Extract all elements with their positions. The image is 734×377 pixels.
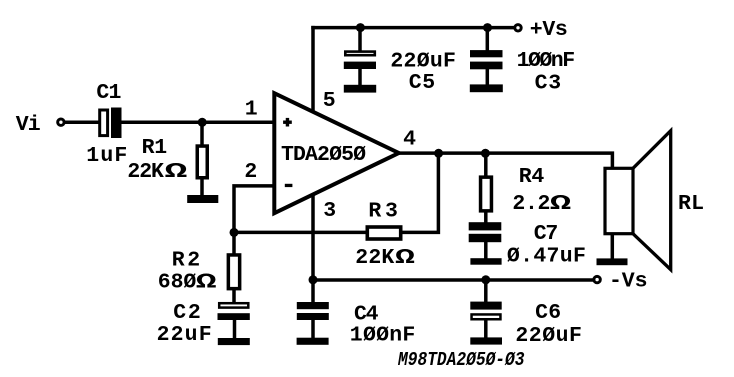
svg-text:Ω: Ω	[550, 191, 572, 216]
svg-text:4: 4	[403, 128, 416, 152]
svg-text:Ω: Ω	[395, 246, 415, 270]
svg-text:1ØØnF: 1ØØnF	[350, 324, 416, 348]
svg-text:C2: C2	[173, 301, 201, 325]
svg-text:5: 5	[323, 89, 336, 113]
svg-text:3: 3	[323, 199, 336, 223]
svg-text:22ØuF: 22ØuF	[515, 324, 582, 348]
svg-text:C1: C1	[96, 81, 121, 105]
svg-text:-Vs: -Vs	[609, 270, 648, 294]
svg-text:22K: 22K	[355, 246, 394, 270]
svg-text:1: 1	[245, 98, 258, 122]
svg-text:M98TDA2Ø5Ø-Ø3: M98TDA2Ø5Ø-Ø3	[397, 349, 525, 371]
svg-text:R1: R1	[142, 136, 168, 160]
svg-text:2: 2	[244, 160, 257, 184]
svg-text:22K: 22K	[127, 160, 164, 184]
svg-text:C5: C5	[409, 71, 436, 95]
svg-text:C7: C7	[534, 222, 559, 246]
svg-text:C6: C6	[535, 301, 561, 325]
svg-text:R4: R4	[519, 165, 545, 189]
svg-text:Vi: Vi	[16, 113, 41, 137]
svg-text:Ω: Ω	[196, 270, 217, 295]
svg-text:2.2: 2.2	[512, 192, 550, 216]
svg-text:1uF: 1uF	[86, 144, 127, 168]
svg-text:22ØuF: 22ØuF	[390, 50, 456, 74]
svg-text:1ØØnF: 1ØØnF	[517, 49, 576, 73]
svg-text:68Ø: 68Ø	[158, 271, 197, 295]
svg-text:22uF: 22uF	[157, 323, 212, 347]
svg-text:Ω: Ω	[165, 160, 188, 184]
svg-text:C3: C3	[535, 72, 562, 96]
svg-text:RL: RL	[678, 192, 704, 216]
svg-text:Ø.47uF: Ø.47uF	[507, 245, 586, 269]
svg-text:R3: R3	[368, 200, 398, 224]
svg-text:+Vs: +Vs	[530, 18, 568, 42]
svg-text:TDA2Ø5Ø: TDA2Ø5Ø	[281, 143, 366, 167]
